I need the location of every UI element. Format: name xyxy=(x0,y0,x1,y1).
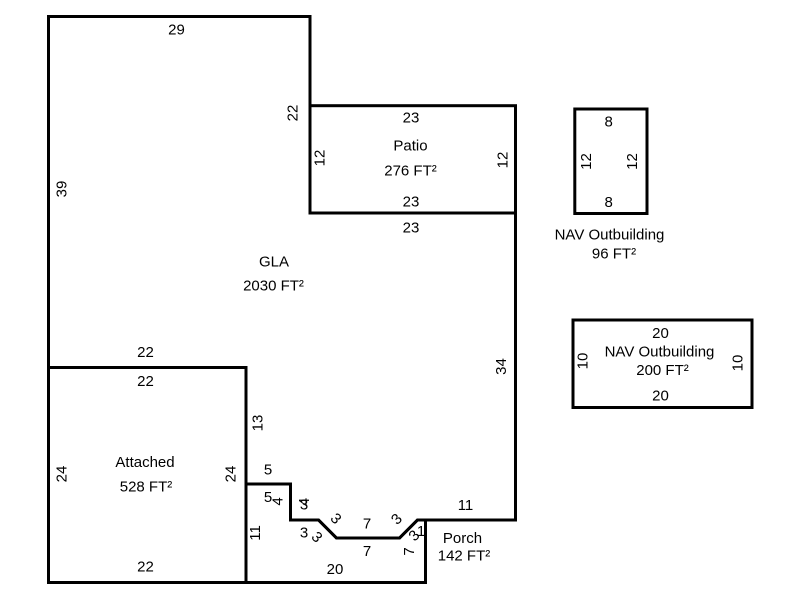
svg-text:3: 3 xyxy=(300,525,308,542)
svg-text:200 FT²: 200 FT² xyxy=(636,362,689,379)
svg-text:24: 24 xyxy=(54,466,71,483)
svg-text:528 FT²: 528 FT² xyxy=(120,479,173,496)
svg-text:22: 22 xyxy=(285,105,302,122)
svg-text:NAV Outbuilding: NAV Outbuilding xyxy=(605,344,715,361)
svg-text:11: 11 xyxy=(247,525,264,541)
svg-text:276 FT²: 276 FT² xyxy=(384,163,437,180)
svg-text:2030 FT²: 2030 FT² xyxy=(243,278,304,295)
svg-text:NAV Outbuilding: NAV Outbuilding xyxy=(555,227,665,244)
svg-text:1: 1 xyxy=(417,523,425,540)
GLA outline xyxy=(49,17,516,539)
svg-text:13: 13 xyxy=(250,415,267,432)
Attached rectangle xyxy=(49,368,247,583)
svg-text:22: 22 xyxy=(137,373,154,390)
svg-text:3: 3 xyxy=(300,497,308,514)
svg-text:10: 10 xyxy=(730,355,747,372)
svg-text:Attached: Attached xyxy=(115,454,174,471)
svg-text:12: 12 xyxy=(578,153,595,170)
svg-text:Patio: Patio xyxy=(393,138,427,155)
svg-text:7: 7 xyxy=(363,543,371,560)
svg-text:12: 12 xyxy=(495,152,512,169)
svg-text:GLA: GLA xyxy=(259,254,289,271)
svg-text:7: 7 xyxy=(363,516,371,533)
svg-text:23: 23 xyxy=(403,220,420,237)
svg-text:23: 23 xyxy=(403,110,420,127)
svg-text:29: 29 xyxy=(168,22,185,39)
NAV Outbuilding 96 rectangle xyxy=(575,109,647,214)
svg-text:20: 20 xyxy=(327,561,344,578)
svg-text:142 FT²: 142 FT² xyxy=(438,548,491,565)
Porch outline xyxy=(246,484,426,583)
svg-text:22: 22 xyxy=(137,559,154,576)
svg-text:39: 39 xyxy=(54,181,71,198)
svg-text:34: 34 xyxy=(493,358,510,375)
svg-text:12: 12 xyxy=(624,153,641,170)
svg-text:7: 7 xyxy=(401,547,418,555)
svg-text:5: 5 xyxy=(264,462,272,479)
svg-text:20: 20 xyxy=(652,325,669,342)
svg-text:24: 24 xyxy=(223,466,240,483)
svg-text:Porch: Porch xyxy=(443,530,482,547)
svg-text:10: 10 xyxy=(575,353,592,370)
Patio rectangle xyxy=(310,106,516,213)
svg-text:22: 22 xyxy=(137,344,154,361)
svg-text:8: 8 xyxy=(605,114,613,131)
svg-text:11: 11 xyxy=(458,497,474,514)
svg-text:23: 23 xyxy=(403,194,420,211)
svg-text:96 FT²: 96 FT² xyxy=(592,246,636,263)
svg-text:8: 8 xyxy=(605,194,613,211)
svg-text:4: 4 xyxy=(270,497,287,505)
NAV Outbuilding 200 rectangle xyxy=(573,320,752,408)
svg-text:20: 20 xyxy=(652,388,669,405)
svg-text:12: 12 xyxy=(312,150,329,167)
